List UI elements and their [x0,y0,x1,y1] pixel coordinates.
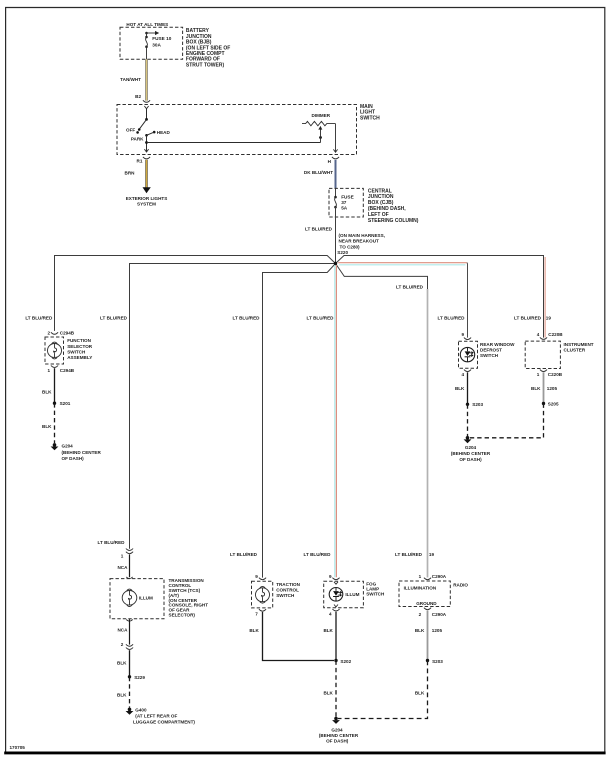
svg-text:EXTERIOR LIGHTS: EXTERIOR LIGHTS [126,196,168,201]
wire to rear window defrost switch [338,263,467,338]
svg-text:OF DASH): OF DASH) [62,456,85,461]
svg-text:FUNCTION: FUNCTION [67,338,91,343]
svg-text:30A: 30A [152,42,161,47]
svg-text:SWITCH: SWITCH [360,115,380,121]
svg-text:RADIO: RADIO [453,583,468,588]
svg-text:5A: 5A [341,206,348,211]
svg-text:STEERING COLUMN): STEERING COLUMN) [368,218,419,224]
wire LT BLU/RED to fog lamp switch [335,265,337,578]
radio illumination ground box [399,581,468,607]
dimmer rheostat [302,113,336,143]
svg-text:1: 1 [419,574,422,579]
svg-text:1205: 1205 [547,386,558,391]
ground G204 behind center of dash [319,717,359,744]
splice S220 note text [337,233,385,255]
wire label LT BLU/RED tcs [98,540,126,545]
wire dimmer output to pin H [333,124,337,153]
wire BLK dashed fog to ground G204 [323,661,336,718]
svg-text:4: 4 [537,332,540,337]
wire TAN/WHT battery feed [120,59,146,100]
pin 1 connector C294B [47,366,74,373]
wire label row LT BLU/RED [25,316,551,321]
wire BLK 1205 radio to splice S203 [415,610,443,660]
svg-text:TRACTION: TRACTION [276,582,300,587]
splice S202 [334,659,351,664]
svg-text:S203: S203 [432,659,443,664]
svg-text:SELECTOR: SELECTOR [67,344,93,349]
svg-text:(BEHIND CENTER: (BEHIND CENTER [451,451,491,456]
svg-text:S205: S205 [548,402,559,407]
pin 9 connector defrost switch [461,332,471,340]
pin 4 connector fog lamp switch [329,605,340,617]
wire to radio [336,264,428,578]
svg-text:C294B: C294B [60,368,75,373]
wire BLK dashed to ground G204 [42,403,54,443]
svg-text:S220: S220 [337,250,348,255]
svg-text:S229: S229 [134,675,145,680]
wire NCA to tcs [117,554,129,577]
svg-text:4: 4 [461,372,464,377]
wire BLK tcs to splice S229 [117,650,129,677]
wire label LT BLU/RED radio with circuit 19 [395,552,434,557]
svg-text:B2: B2 [135,94,141,99]
svg-text:BLK: BLK [323,628,333,633]
splice S203 radio [426,659,443,664]
headlamp switch OFF PARK HEAD [126,106,170,152]
svg-text:SWITCH: SWITCH [480,353,499,358]
instrument cluster dashed box [525,341,594,368]
wire BLK dashed defrost to ground [467,404,469,436]
svg-text:4: 4 [329,612,332,617]
wire to function selector switch [55,256,336,331]
svg-text:2: 2 [47,330,50,335]
wire label LT BLU/RED traction [230,552,258,557]
svg-text:LT BLU/RED: LT BLU/RED [396,284,424,289]
splice S205 [542,402,559,407]
central junction box (CJB) dashed enclosure [329,188,363,217]
pin 2 in-line connector tcs [121,642,133,650]
svg-text:NEAR BREAKOUT: NEAR BREAKOUT [339,239,380,244]
fog lamp switch LED [324,581,385,607]
svg-text:DK BLU/WHT: DK BLU/WHT [304,170,333,175]
svg-text:REAR WINDOW: REAR WINDOW [480,342,515,347]
svg-text:19: 19 [546,316,552,321]
svg-text:S202: S202 [340,659,351,664]
svg-text:NCA: NCA [117,565,128,570]
wire BRN to exterior lights [125,160,147,188]
wire BLK 1205 cluster to splice S205 [531,372,557,403]
wire to instrument cluster [336,256,546,338]
pin 9 connector fog lamp switch [329,574,340,580]
wire LT BLU/RED fuse 37 to splice S220 [305,207,335,262]
svg-text:BLK: BLK [42,389,52,394]
svg-text:7: 7 [255,611,258,616]
svg-text:1205: 1205 [432,628,443,633]
svg-text:C290A: C290A [432,612,447,617]
wire DK BLU/WHT to CJB [304,160,336,189]
svg-text:LT BLU/RED: LT BLU/RED [25,316,53,321]
wire to traction control switch [263,264,336,578]
svg-text:C220B: C220B [548,372,563,377]
ground G400 luggage compartment [126,708,196,725]
wire label LT BLU/RED fog [304,552,332,557]
BJB note text [186,28,230,68]
svg-text:G204: G204 [331,728,343,733]
svg-text:LUGGAGE COMPARTMENT): LUGGAGE COMPARTMENT) [133,720,195,725]
pin B2 connector of main light switch [135,94,150,102]
svg-text:LT BLU/RED: LT BLU/RED [307,316,335,321]
splice S220 [334,262,337,265]
svg-text:FUSE 10: FUSE 10 [152,36,171,41]
battery junction box (BJB) dashed enclosure [120,22,183,59]
fuse F10 30A [145,36,172,60]
svg-text:DEFROST: DEFROST [480,348,502,353]
svg-text:LT BLU/RED: LT BLU/RED [98,540,126,545]
svg-text:SYSTEM: SYSTEM [137,202,156,207]
svg-text:19: 19 [429,552,435,557]
svg-text:BLK: BLK [323,690,333,695]
svg-text:HEAD: HEAD [157,130,171,135]
svg-text:1: 1 [537,372,540,377]
svg-text:LT BLU/RED: LT BLU/RED [395,552,423,557]
svg-text:BLK: BLK [117,661,127,666]
function selector switch assembly illumination lamp [45,337,93,364]
pin 9 connector traction switch [255,574,266,580]
wire internal park feed to dimmer [145,141,320,144]
wire BLK dashed cluster to ground [470,404,544,438]
wire BLK dashed tcs to ground G400 [117,677,129,708]
svg-text:ILLUM: ILLUM [345,592,359,597]
svg-text:9: 9 [461,332,464,337]
pin 2 connector C290A radio [419,608,447,617]
off-page arrow exterior lights system [126,187,168,207]
CJB note text [368,188,419,224]
svg-text:G204: G204 [62,444,74,449]
pin R1 connector [137,157,151,164]
wire to transmission control switch [130,264,336,549]
pin 7 connector traction switch [255,609,266,616]
ground G204 behind dash left [51,443,102,461]
svg-text:STRUT TOWER): STRUT TOWER) [186,62,225,68]
wire BLK to splice S201 [42,368,54,403]
svg-text:BLK: BLK [415,628,425,633]
svg-text:G400: G400 [135,708,147,713]
svg-text:LT BLU/RED: LT BLU/RED [438,316,466,321]
svg-text:(BEHIND CENTER: (BEHIND CENTER [62,450,102,455]
svg-text:INSTRUMENT: INSTRUMENT [564,342,594,347]
svg-text:2: 2 [419,612,422,617]
wire label LT BLU/RED radio drop [396,284,424,289]
svg-text:OFF: OFF [126,128,135,133]
svg-text:HOT AT ALL TIMES: HOT AT ALL TIMES [126,22,168,27]
wire BLK dashed radio to ground G204 [338,661,428,719]
svg-text:C294B: C294B [60,330,75,335]
svg-text:(BEHIND CENTER: (BEHIND CENTER [319,733,359,738]
svg-text:S203: S203 [472,402,483,407]
pin 4 connector C220B [537,332,564,339]
svg-text:CONTROL: CONTROL [276,588,299,593]
svg-text:2: 2 [121,642,124,647]
svg-text:C290A: C290A [432,574,447,579]
pin 1 connector C290A radio [419,574,447,580]
svg-text:ILLUMINATION: ILLUMINATION [404,585,437,590]
splice S229 [128,675,146,680]
node hot feed with arrow [145,31,159,37]
svg-text:S201: S201 [60,401,71,406]
svg-text:TO C280): TO C280) [340,245,361,250]
svg-text:9: 9 [329,574,332,579]
svg-text:BLK: BLK [455,386,465,391]
svg-text:LT BLU/RED: LT BLU/RED [233,316,261,321]
svg-text:BLK: BLK [249,628,259,633]
svg-text:TAN/WHT: TAN/WHT [120,77,141,82]
wire BLK fog to splice S202 [323,612,336,661]
svg-text:C220B: C220B [548,332,563,337]
svg-text:9: 9 [255,574,258,579]
svg-text:NCA: NCA [117,628,128,633]
svg-text:G204: G204 [465,445,477,450]
svg-text:FUSE: FUSE [341,194,354,199]
wire BLK traction to splice S202 [249,612,334,661]
diagram number 170705 [10,745,26,750]
svg-text:LT BLU/RED: LT BLU/RED [514,316,542,321]
svg-text:1: 1 [47,368,50,373]
splice S201 [53,401,71,406]
svg-text:GROUND: GROUND [416,601,437,606]
pin 2 connector C294B [47,330,74,335]
svg-text:BLK: BLK [117,692,127,697]
pin 1 in-line connector tcs [121,549,133,559]
fuse F37 5A [334,188,354,210]
splice S203 [466,402,484,407]
svg-text:(AT LEFT REAR OF: (AT LEFT REAR OF [135,714,177,719]
svg-text:ASSEMBLY: ASSEMBLY [67,355,92,360]
svg-text:BLK: BLK [415,690,425,695]
svg-text:PARK: PARK [131,136,144,141]
ground G204 behind dash right [451,436,491,462]
svg-text:OF DASH): OF DASH) [326,738,349,743]
svg-text:ILLUM: ILLUM [139,595,153,600]
svg-text:SELECTOR): SELECTOR) [169,613,196,618]
transmission control switch illumination lamp [110,577,208,619]
svg-text:R1: R1 [137,159,143,164]
svg-text:CLUSTER: CLUSTER [564,348,586,353]
svg-text:1: 1 [121,553,124,558]
svg-text:OF DASH): OF DASH) [459,457,482,462]
svg-text:170705: 170705 [10,745,26,750]
svg-text:BLK: BLK [531,386,541,391]
svg-text:SWITCH: SWITCH [276,593,295,598]
svg-text:SWITCH: SWITCH [67,350,86,355]
svg-text:LT BLU/RED: LT BLU/RED [230,552,258,557]
main light switch dashed enclosure [117,104,380,155]
svg-text:BRN: BRN [125,170,136,175]
rear window defrost switch LED [459,341,516,368]
svg-text:SWITCH: SWITCH [366,591,385,596]
traction control switch illumination lamp [252,581,301,608]
svg-text:DIMMER: DIMMER [312,113,331,118]
svg-text:LT BLU/RED: LT BLU/RED [304,552,332,557]
svg-text:(ON MAIN HARNESS,: (ON MAIN HARNESS, [339,233,385,238]
wire BLK defrost to splice S203 [455,372,468,404]
svg-text:LT BLU/RED: LT BLU/RED [305,227,333,232]
pin H connector [328,157,339,164]
svg-text:BLK: BLK [42,424,52,429]
pin 4 connector defrost switch [461,370,471,378]
svg-text:LT BLU/RED: LT BLU/RED [100,316,128,321]
svg-text:37: 37 [341,200,347,205]
pin 1 connector C220B [537,370,563,378]
wire NCA below tcs [117,619,132,644]
